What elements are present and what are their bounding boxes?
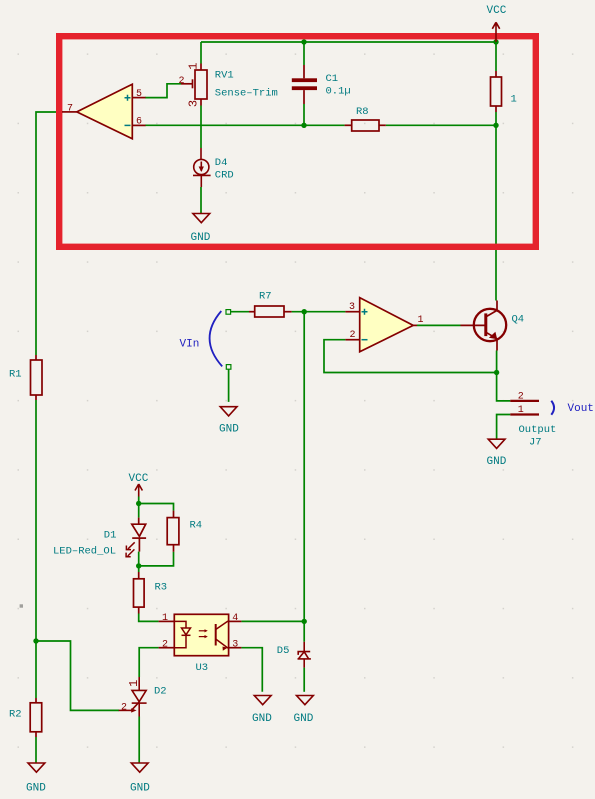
VIn blue arc bracket <box>210 311 223 366</box>
resistor 1 (VCC rail) <box>491 77 502 106</box>
resistor R4 <box>167 518 179 545</box>
wire junction branch to D2 pin2 <box>36 641 119 710</box>
wire RV1 top riser <box>200 42 202 64</box>
wire VIn lower to GND <box>228 369 230 402</box>
ground below D4 <box>193 214 210 223</box>
svg-text:1: 1 <box>418 315 424 326</box>
svg-text:VCC: VCC <box>487 5 507 17</box>
svg-text:Q4: Q4 <box>512 314 525 326</box>
svg-text:C1: C1 <box>326 73 339 85</box>
svg-text:GND: GND <box>487 456 507 468</box>
wire top rail <box>201 41 496 43</box>
Vout blue bracket <box>551 401 554 415</box>
wire VCC rail upper <box>495 42 497 71</box>
svg-text:R1: R1 <box>9 369 22 381</box>
wire U3 pin3 to GND <box>241 648 262 692</box>
svg-text:GND: GND <box>219 424 239 436</box>
svg-text:D5: D5 <box>277 645 290 657</box>
svg-text:Vout: Vout <box>568 403 594 415</box>
capacitor C1 <box>292 78 317 90</box>
wire U3 pin4 to mid net <box>241 620 304 622</box>
wire opamp pin7 to left rail down to R1 <box>36 112 62 355</box>
wire R4 bottom to junction <box>139 552 174 566</box>
svg-text:R3: R3 <box>155 581 168 593</box>
VCC power symbol top <box>492 22 499 41</box>
wire pin6 net right of R8 <box>386 124 496 126</box>
op-amp U? (left, output pin7) <box>77 84 133 139</box>
svg-text:GND: GND <box>26 783 46 795</box>
wire C1 top <box>303 42 305 65</box>
wire R7 right to opamp pin3 <box>292 311 346 313</box>
svg-text:2: 2 <box>121 703 127 714</box>
svg-text:GND: GND <box>252 713 272 725</box>
ground below U3 pin3 <box>254 696 271 705</box>
svg-text:2: 2 <box>350 330 356 341</box>
connector J7 pin 1 <box>510 413 539 415</box>
zener diode D5 <box>298 642 311 668</box>
svg-text:4: 4 <box>232 613 238 624</box>
wire R2 bottom to GND <box>35 737 37 763</box>
wire opamp2 output to Q4 base <box>417 324 461 326</box>
U3 internal LED <box>174 621 190 647</box>
svg-text:D4: D4 <box>215 157 228 169</box>
svg-text:GND: GND <box>294 713 314 725</box>
svg-text:LED–Red_OL: LED–Red_OL <box>53 546 116 558</box>
svg-text:3: 3 <box>232 639 238 650</box>
wire D4 to GND <box>200 187 202 214</box>
svg-text:GND: GND <box>130 783 150 795</box>
VCC power symbol lower <box>135 484 142 497</box>
LED D1 <box>132 518 146 552</box>
svg-text:2: 2 <box>518 392 524 403</box>
wire VCC rail to Q4 <box>495 112 497 301</box>
resistor R1 <box>31 360 43 395</box>
ground below D5 <box>297 696 314 705</box>
wire Q4 emitter down <box>497 351 511 401</box>
wire branch to R4 top <box>139 504 174 511</box>
svg-text:VIn: VIn <box>180 339 200 351</box>
resistor R8 <box>352 120 379 131</box>
unconnected end square VIn top <box>226 310 231 315</box>
ground below J7 <box>488 439 505 448</box>
wire VCC2 to junction <box>138 497 140 518</box>
wire D1 bottom to R3 <box>138 552 140 572</box>
resistor R7 <box>255 306 284 317</box>
unconnected end square VIn bottom <box>226 365 231 370</box>
resistor R3 <box>134 579 145 607</box>
svg-text:D1: D1 <box>104 530 117 542</box>
svg-text:U3: U3 <box>196 662 209 674</box>
svg-text:3: 3 <box>187 100 201 107</box>
resistor R2 <box>30 703 42 732</box>
wire feedback pin2 to emitter <box>324 340 497 373</box>
zener diode D2 <box>119 677 147 717</box>
wire D5 top <box>303 621 305 641</box>
svg-text:6: 6 <box>136 117 142 128</box>
wire C1 bottom <box>303 104 305 125</box>
wire R3 to U3 pin1 <box>139 614 159 622</box>
ground below D2 <box>131 763 148 772</box>
trimmer RV1 <box>195 70 207 99</box>
svg-text:1: 1 <box>162 613 168 624</box>
U3 light arrows <box>199 631 205 637</box>
wire U3 pin2 to D2 <box>139 648 158 677</box>
svg-text:3: 3 <box>349 302 355 313</box>
optocoupler U3 <box>174 614 228 655</box>
svg-text:R8: R8 <box>356 106 369 118</box>
svg-text:RV1: RV1 <box>215 69 234 81</box>
ground below VIn <box>220 407 237 416</box>
svg-text:R2: R2 <box>9 709 22 721</box>
svg-text:VCC: VCC <box>129 473 149 485</box>
wire pin6 net left <box>145 124 345 126</box>
svg-text:1: 1 <box>518 405 524 416</box>
wire R1 to junction to R2 <box>35 400 37 698</box>
wire pin5 to RV1 wiper <box>145 84 181 98</box>
CRD diode D4 <box>193 148 211 187</box>
wire R7 left stub <box>231 311 249 313</box>
svg-text:R7: R7 <box>259 291 272 303</box>
svg-text:5: 5 <box>136 89 142 100</box>
red annotation rectangle <box>59 36 536 247</box>
svg-text:7: 7 <box>67 103 73 114</box>
svg-text:1: 1 <box>187 63 201 70</box>
svg-text:0.1µ: 0.1µ <box>326 86 351 98</box>
svg-text:2: 2 <box>179 76 185 87</box>
op-amp U? (mid, output pin1) <box>360 298 414 352</box>
svg-text:Sense–Trim: Sense–Trim <box>215 88 278 100</box>
svg-text:Output: Output <box>519 424 557 436</box>
wire vertical mid net <box>303 312 305 622</box>
ground below R2 <box>28 763 45 772</box>
transistor Q4 <box>461 301 507 351</box>
connector J7 pin 2 <box>510 400 539 402</box>
svg-text:1: 1 <box>127 680 141 687</box>
wire D2 bottom to GND <box>138 717 140 763</box>
wire J7 pin1 to GND <box>497 415 511 440</box>
svg-text:R4: R4 <box>190 519 203 531</box>
U3 phototransistor <box>215 624 217 646</box>
svg-text:D2: D2 <box>154 685 167 697</box>
svg-text:1: 1 <box>511 94 517 106</box>
svg-text:CRD: CRD <box>215 170 234 182</box>
svg-text:J7: J7 <box>529 436 542 448</box>
wire RV1 bottom to D4 <box>200 106 202 149</box>
wire D5 bottom to GND <box>303 668 305 692</box>
svg-text:GND: GND <box>191 232 211 244</box>
svg-text:2: 2 <box>162 639 168 650</box>
